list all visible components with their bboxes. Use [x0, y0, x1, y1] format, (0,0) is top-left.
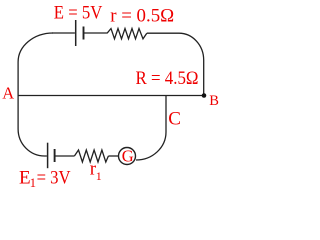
wire: battery E to resistor r: [84, 32, 108, 34]
galvanometer G circle: [119, 148, 136, 165]
battery E (long plate): [75, 20, 77, 46]
wire: branch from C down to galvanometer: [136, 96, 166, 161]
wire: top segment into battery E: [52, 32, 75, 34]
wire: resistor r to top-right corner down to node B: [147, 33, 204, 95]
wire: battery E1 to resistor r1: [55, 155, 75, 157]
battery E (short plate): [83, 27, 85, 40]
svg-text:E = 5V: E = 5V: [54, 2, 103, 23]
wire: top-left corner and left side from A branch: [18, 33, 53, 156]
svg-text:1: 1: [30, 176, 36, 190]
battery E1 (short plate): [54, 149, 56, 162]
svg-text:A: A: [2, 84, 14, 103]
resistor r (zigzag): [107, 29, 147, 39]
svg-text:= 3V: = 3V: [37, 167, 71, 188]
svg-text:G: G: [122, 146, 134, 165]
svg-text:r = 0.5Ω: r = 0.5Ω: [110, 5, 174, 26]
svg-text:C: C: [168, 109, 181, 130]
wire: middle horizontal A to B: [18, 95, 204, 97]
svg-text:B: B: [209, 93, 219, 109]
wire: resistor r1 to galvanometer: [108, 155, 118, 157]
svg-text:1: 1: [96, 169, 102, 183]
node B junction dot: [202, 93, 207, 98]
svg-text:R = 4.5Ω: R = 4.5Ω: [136, 68, 199, 89]
resistor r1 (zigzag): [74, 150, 108, 162]
battery E1 (long plate): [47, 143, 49, 169]
